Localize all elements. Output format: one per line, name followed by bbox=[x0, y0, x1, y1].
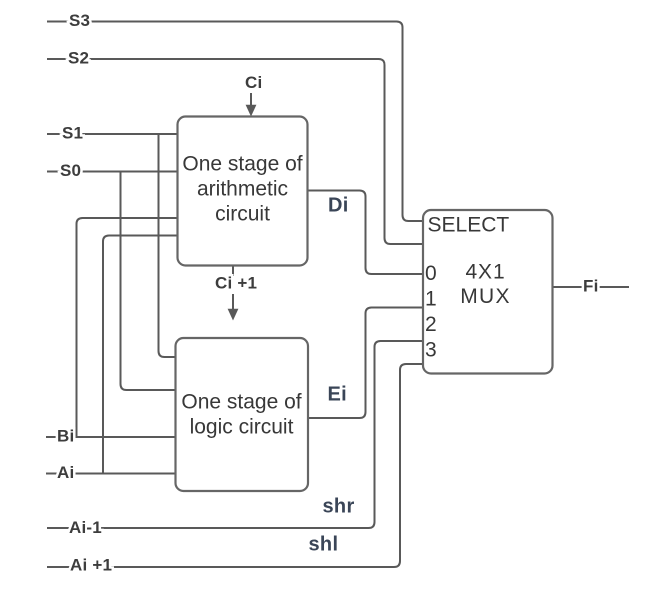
box U1 one stage of arithmetic circuit bbox=[178, 117, 308, 266]
wire Bi bbox=[46, 436, 176, 438]
svg-text:1: 1 bbox=[425, 287, 437, 310]
svg-text:shl: shl bbox=[309, 534, 339, 556]
wire Fi output bbox=[553, 286, 630, 288]
svg-text:2: 2 bbox=[425, 313, 437, 336]
svg-text:4X1: 4X1 bbox=[465, 261, 505, 284]
wire S0 bbox=[47, 171, 178, 173]
svg-text:circuit: circuit bbox=[215, 203, 270, 226]
svg-text:S0: S0 bbox=[60, 161, 81, 180]
svg-text:Ci: Ci bbox=[245, 73, 262, 92]
svg-text:Ei: Ei bbox=[328, 384, 348, 406]
label Ai+1 bbox=[84, 563, 92, 572]
svg-text:shr: shr bbox=[323, 495, 355, 517]
wire S0 branch to logic box bbox=[121, 172, 176, 391]
svg-text:Di: Di bbox=[328, 195, 349, 217]
svg-text:S3: S3 bbox=[69, 11, 90, 30]
box U3 4X1 MUX bbox=[423, 210, 553, 374]
svg-text:MUX: MUX bbox=[460, 285, 511, 308]
svg-text:logic circuit: logic circuit bbox=[190, 416, 294, 439]
wire Ai-1 shr to MUX input 2 bbox=[47, 341, 423, 528]
wire Di to MUX input 0 bbox=[308, 191, 424, 275]
wire S1 bbox=[47, 133, 178, 135]
wire Ai+1 shl to MUX input 3 bbox=[47, 364, 423, 567]
svg-text:Ai-1: Ai-1 bbox=[69, 518, 102, 537]
svg-text:Ci +1: Ci +1 bbox=[215, 274, 257, 293]
svg-text:One stage of: One stage of bbox=[181, 391, 301, 414]
arrow Ci into arithmetic box bbox=[250, 93, 252, 106]
wire Bi branch to arithmetic box bbox=[77, 218, 178, 437]
svg-text:3: 3 bbox=[425, 339, 437, 362]
svg-text:One stage of: One stage of bbox=[182, 153, 302, 176]
svg-text:S1: S1 bbox=[62, 124, 83, 143]
svg-text:SELECT: SELECT bbox=[428, 214, 510, 237]
svg-text:S2: S2 bbox=[68, 48, 89, 67]
wire Ai bbox=[46, 473, 176, 475]
svg-text:Fi: Fi bbox=[583, 277, 599, 296]
svg-text:Bi: Bi bbox=[57, 426, 74, 445]
wire S3 bbox=[47, 22, 423, 222]
wire Ai branch to arithmetic box bbox=[103, 236, 178, 474]
svg-text:arithmetic: arithmetic bbox=[197, 178, 288, 201]
svg-text:Ai: Ai bbox=[57, 463, 74, 482]
svg-text:Ai +1: Ai +1 bbox=[70, 556, 112, 575]
wire Ei to MUX input 1 bbox=[308, 308, 423, 419]
arrow Ci+1 into logic box bbox=[232, 294, 234, 309]
box U2 one stage of logic circuit bbox=[176, 338, 309, 491]
wire S2 bbox=[47, 59, 423, 244]
wire Ci+1 stub below arithmetic box bbox=[232, 266, 234, 277]
wire S1 branch to logic box bbox=[159, 134, 176, 357]
svg-text:0: 0 bbox=[425, 262, 437, 285]
